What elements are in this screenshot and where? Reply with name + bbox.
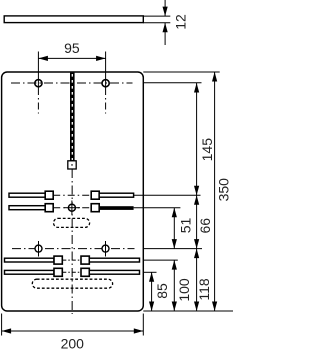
hole H1 vertical line (37, 52, 39, 89)
svg-text:100: 100 (176, 278, 192, 302)
dimension 51 line (173, 208, 175, 249)
dimension 12 line lower (164, 23, 166, 45)
bottom edge extension line (143, 310, 233, 312)
row4 center line gap (62, 271, 81, 273)
row3 extension line (143, 259, 178, 261)
slot (vertical keyhole slot) (70, 73, 75, 161)
row2 left square (45, 204, 53, 212)
svg-text:51: 51 (178, 218, 194, 234)
top edge extension line (143, 71, 219, 73)
dimension 200 line (2, 330, 144, 332)
row1 center line (53, 194, 91, 196)
row2 extension line (134, 207, 181, 209)
holes center line horizontal (11, 82, 133, 84)
stadium slot lower dashed (32, 279, 112, 288)
row4 left bar (5, 270, 55, 274)
side view extension line bottom (143, 22, 170, 24)
stadium slot upper dashed (54, 218, 90, 227)
svg-text:85: 85 (154, 283, 170, 299)
row4 right square (81, 268, 89, 276)
dimension 200 extension right (142, 314, 144, 336)
dimension 350 line (214, 72, 216, 311)
dimension 95 line (38, 57, 105, 59)
hole H2 vertical line (105, 52, 107, 89)
circles row center line (12, 248, 135, 250)
svg-text:118: 118 (196, 278, 212, 301)
row3 center line gap (62, 259, 81, 261)
row3 right bar (89, 258, 139, 262)
row4 right bar (89, 270, 139, 274)
row1 right bar (99, 193, 133, 197)
svg-text:66: 66 (197, 218, 213, 234)
row3 left square (54, 256, 62, 264)
dimension 12 line upper (164, 0, 166, 16)
circle B2 (102, 245, 109, 252)
row2 right square (91, 204, 99, 212)
svg-text:200: 200 (61, 335, 85, 350)
svg-text:350: 350 (216, 178, 232, 202)
row2 left bar (9, 206, 45, 210)
hole H1 (35, 80, 42, 87)
circles row extension line (143, 248, 202, 250)
plate outline (2, 72, 144, 311)
row1 right square (91, 191, 99, 199)
dimension 100 line (173, 260, 175, 311)
dimension 66 line (196, 195, 198, 248)
row3 left bar (5, 258, 55, 262)
side view bar (4, 16, 143, 23)
row1 left bar (9, 193, 45, 197)
hole H2 (102, 80, 109, 87)
center vertical dash-dot line (71, 169, 73, 314)
svg-text:95: 95 (64, 40, 80, 56)
holes row extension line (143, 82, 201, 84)
circle B1 (35, 245, 42, 252)
slot end square (68, 161, 76, 169)
dimension 145 line (196, 83, 198, 195)
row2 center line (53, 207, 91, 209)
svg-text:12: 12 (173, 14, 189, 30)
dimension 200 extension left (1, 314, 3, 336)
dimension 118 line (196, 249, 198, 311)
svg-text:145: 145 (199, 138, 215, 162)
row3 right square (81, 256, 89, 264)
row4 extension line (143, 271, 156, 273)
side view extension line top (143, 15, 170, 17)
row1 left square (45, 191, 53, 199)
row1 extension line (134, 194, 201, 196)
circle C1 (68, 204, 75, 211)
dimension 85 line (151, 272, 153, 311)
row2 right bar solid (99, 206, 133, 210)
row4 left square (54, 268, 62, 276)
